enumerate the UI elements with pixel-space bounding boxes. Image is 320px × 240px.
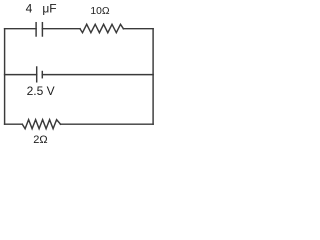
svg-text:4: 4 <box>26 1 33 15</box>
svg-text:10Ω: 10Ω <box>90 6 109 17</box>
svg-text:2Ω: 2Ω <box>33 134 47 146</box>
wire battery to right vertical <box>42 74 153 76</box>
svg-text:2.5 V: 2.5 V <box>27 84 55 98</box>
svg-text:μF: μF <box>42 1 56 15</box>
wire top-left horizontal (left node to capacitor) <box>5 28 36 30</box>
battery V1 2.5V long plate <box>36 67 38 82</box>
wire middle-left horizontal (left node to battery) <box>5 74 37 76</box>
resistor R1 10ohm zigzag <box>80 24 123 32</box>
capacitor C1 4 uF right plate <box>41 23 43 36</box>
wire resistor 2ohm to bottom-right corner <box>61 123 154 125</box>
wire left vertical <box>4 29 6 125</box>
resistor R2 2ohm zigzag <box>22 120 60 129</box>
wire bottom-left (left node to resistor 2ohm) <box>5 123 23 125</box>
wire capacitor to resistor 10ohm <box>42 28 80 30</box>
battery V1 2.5V short plate <box>41 72 43 78</box>
wire resistor 10ohm to top-right corner <box>123 28 153 30</box>
capacitor C1 4 uF left plate <box>35 23 37 36</box>
wire right vertical <box>152 29 154 125</box>
